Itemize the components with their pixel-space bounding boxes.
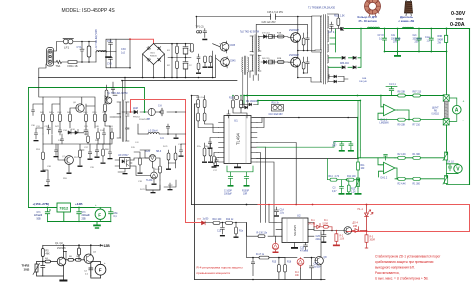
svg-text:DA1.2: DA1.2: [381, 177, 388, 180]
op-amp DA1.2: [378, 154, 397, 178]
svg-text:D83-004: D83-004: [340, 63, 350, 65]
extra labels cluster: [131, 147, 160, 183]
svg-text:MODEL: ISO-450PP 4S: MODEL: ISO-450PP 4S: [62, 8, 116, 14]
svg-text:TL494: TL494: [236, 132, 241, 145]
aux small transformer T4: [242, 56, 249, 75]
red protection frame top: [131, 100, 186, 223]
base drive row 1: [261, 35, 288, 39]
svg-text:FR11 1Б: FR11 1Б: [68, 64, 78, 68]
svg-text:25 - 30 витков: 25 - 30 витков: [359, 19, 378, 23]
green caps under U1: [227, 166, 253, 187]
svg-text:VR140: VR140: [308, 223, 316, 225]
resistor row: [42, 114, 45, 122]
svg-text:R2 4,4K: R2 4,4K: [398, 184, 407, 186]
R6 R7: [63, 252, 66, 259]
svg-text:R9 33K: R9 33K: [398, 124, 406, 126]
svg-text:F: F: [99, 268, 102, 273]
svg-text:1,2К: 1,2К: [351, 192, 356, 194]
svg-text:25V: 25V: [393, 42, 398, 44]
svg-text:R15: R15: [272, 262, 277, 264]
cap C470: [304, 243, 308, 250]
toroid core drawing: [365, 0, 381, 16]
svg-text:1,0К: 1,0К: [340, 239, 345, 241]
svg-text:3300мкФ: 3300мкФ: [391, 37, 401, 40]
cap C2: [89, 266, 93, 276]
left block density labels: [36, 126, 110, 180]
comparator U2: [282, 218, 308, 243]
svg-text:-: -: [463, 118, 464, 122]
green bus risers from rectifier: [244, 96, 258, 105]
output rectifier diode pair row 1: [329, 29, 362, 68]
output choke coil 1 on bus: [368, 27, 380, 28]
main transformer T1: [311, 15, 328, 85]
U2 pins: [276, 223, 314, 237]
svg-text:C10 10uF16V: C10 10uF16V: [269, 114, 284, 116]
svg-text:R-19 10к: R-19 10к: [196, 97, 204, 99]
mid caps/diodes: [47, 125, 62, 135]
svg-text:R-17 1к: R-17 1к: [256, 254, 265, 256]
second top wire: [256, 24, 307, 34]
svg-text:Стабилитроном ZD-1 устанавлива: Стабилитроном ZD-1 устанавливается порог: [375, 255, 441, 259]
black feedback line: [252, 117, 358, 119]
svg-text:0,47: 0,47: [332, 191, 337, 193]
svg-text:C26 1uF 25V: C26 1uF 25V: [262, 21, 276, 24]
base drive row 2: [261, 60, 288, 64]
cap C17: [215, 158, 219, 166]
7812 regulator circuit (green): [29, 207, 95, 209]
svg-text:2SC5027: 2SC5027: [289, 29, 300, 32]
svg-text:R12: R12: [351, 189, 356, 191]
svg-text:C1хх: C1хх: [425, 37, 431, 39]
top rail wire: [196, 16, 311, 18]
snubber R/C row2: [298, 51, 315, 78]
svg-text:10К: 10К: [295, 275, 300, 277]
fuse T6A: [56, 60, 62, 63]
transistor Q4: [221, 57, 230, 69]
svg-text:C-100P: C-100P: [224, 191, 232, 193]
transistor Q6: [65, 156, 74, 165]
svg-text:0-20A: 0-20A: [450, 22, 465, 28]
svg-text:Д1М: Д1М: [133, 108, 138, 110]
svg-text:R100P: R100P: [242, 191, 249, 193]
svg-text:CY2: CY2: [107, 41, 112, 43]
svg-text:TL431: TL431: [146, 180, 153, 182]
svg-text:R87 210: R87 210: [413, 92, 422, 94]
components above U1: [227, 95, 247, 118]
svg-text:ДО-4: ДО-4: [353, 223, 359, 225]
svg-text:SB-3: SB-3: [156, 151, 162, 153]
svg-text:ШУНТ: ШУНТ: [432, 108, 439, 110]
filter cap C2x: [417, 29, 421, 52]
connections to T3: [105, 96, 114, 145]
rectifier wire with D1M: [122, 108, 186, 116]
svg-text:540R: 540R: [438, 39, 444, 41]
U1 pin stubs: [219, 123, 258, 163]
svg-text:10R: 10R: [243, 194, 248, 196]
svg-text:R2B: R2B: [277, 58, 282, 60]
hanging parts: [251, 258, 254, 276]
svg-text:D7 C14: D7 C14: [262, 33, 270, 35]
resistors left of U1: [197, 96, 219, 168]
trimmer R-4 (red): [297, 258, 304, 268]
red protection feed line: [258, 204, 470, 206]
filter cap C1YO: [383, 29, 387, 52]
red frame bottom edge: [346, 231, 470, 233]
svg-text:R16 1k: R16 1k: [272, 102, 280, 104]
resistor R5: [42, 245, 44, 248]
black rail continuation to T3: [39, 78, 43, 98]
resistor R8: [398, 94, 406, 97]
svg-text:C25 4,7uF 25V: C25 4,7uF 25V: [267, 11, 283, 14]
red LED HL-1: [365, 205, 373, 231]
resistor R2b: [398, 177, 406, 180]
resistor R2a: [398, 156, 406, 159]
svg-text:2200/10V: 2200/10V: [139, 119, 149, 121]
resistor R87: [413, 94, 421, 97]
svg-text:L-5 35uH: L-5 35uH: [148, 131, 158, 133]
cap C25 on top rail: [271, 14, 276, 19]
trimmer TL431 group: [134, 146, 177, 185]
transistor Q5: [76, 104, 84, 112]
shunt terminal bottom: [443, 119, 449, 125]
secondary snubber R511 C27: [327, 14, 344, 31]
trimmer R40 (red highlighted): [272, 242, 278, 253]
svg-text:LF1: LF1: [64, 46, 70, 50]
optocoupler U3: [115, 158, 134, 169]
svg-text:300R: 300R: [370, 240, 376, 242]
bridge rectifier BR1: [143, 44, 165, 65]
svg-text:0,47: 0,47: [332, 146, 337, 148]
fusible resistor FR11: [68, 61, 77, 64]
transistor Q3: [220, 41, 229, 53]
L5 inductor row: [138, 124, 186, 139]
long vertical 2: [194, 104, 196, 280]
svg-text:R-20: R-20: [145, 151, 151, 153]
ammeter A: [449, 98, 461, 121]
ground: [62, 276, 64, 280]
fan F (green): [95, 208, 106, 222]
svg-text:C1YO: C1YO: [378, 35, 384, 37]
resistor R8 vertical: [78, 245, 80, 248]
svg-text:220мкФ: 220мкФ: [82, 214, 90, 217]
standby primary snubber: [105, 82, 117, 101]
bridge connection wires: [143, 44, 192, 78]
cap C1A: [274, 207, 279, 217]
primary bottom rail: [39, 77, 216, 79]
svg-text:U2: U2: [297, 214, 301, 218]
varistor RV1: [87, 42, 91, 63]
red resistor R-3: [365, 231, 368, 249]
svg-text:46К: 46К: [46, 253, 51, 256]
cap CY1: [80, 42, 84, 63]
thermistor THR2: [37, 262, 43, 265]
svg-text:R19: R19: [229, 98, 234, 100]
svg-text:R-4 регулировка порога защиты: R-4 регулировка порога защиты: [197, 266, 244, 270]
filter inductor LF2: [96, 51, 106, 62]
green return line ammeter: [378, 110, 444, 120]
svg-text:U3 CT817: U3 CT817: [118, 155, 129, 157]
output rectifier label fix: [337, 71, 359, 77]
sense chain black: [205, 222, 276, 237]
power transistor Q1: [288, 17, 301, 51]
svg-text:RS605: RS605: [150, 56, 157, 58]
svg-text:С2О: С2О: [316, 236, 321, 238]
svg-text:Кольцо от ДГС: Кольцо от ДГС: [358, 15, 378, 19]
ground output filter: [394, 52, 401, 57]
cap C3 0,47: [339, 180, 352, 195]
svg-text:R16: R16: [287, 262, 292, 264]
U1 ground: [237, 164, 239, 167]
output choke coil 2 on bus: [403, 27, 414, 28]
svg-text:2SC5027: 2SC5027: [289, 54, 300, 57]
svg-text:R1 300: R1 300: [413, 184, 421, 186]
black mid wire of protection: [314, 227, 346, 231]
red diode DO-4: [352, 227, 367, 233]
svg-text:3300мкФ: 3300мкФ: [413, 37, 423, 40]
green bottom rail of output filter: [385, 51, 447, 53]
svg-text:выходного напряжения БП.: выходного напряжения БП.: [375, 266, 415, 270]
svg-text:D9 1N4148: D9 1N4148: [246, 101, 258, 103]
resistors right column mid: [202, 143, 213, 163]
choke photo drawing: [405, 0, 413, 16]
lower wires: [43, 144, 110, 172]
hanging C and R on sense chain: [220, 223, 239, 238]
transistor Q2: [84, 254, 93, 263]
bottom rail: [195, 279, 326, 281]
svg-text:YP1 (2): YP1 (2): [196, 25, 204, 28]
svg-text:Тр: TRD-62L 90ТМ: Тр: TRD-62L 90ТМ: [107, 92, 127, 95]
svg-text:1u/50v: 1u/50v: [314, 267, 322, 269]
standby transformer T3: [114, 78, 129, 142]
extra small parts left block: [32, 104, 113, 186]
green standby frame left vertical: [28, 88, 30, 208]
svg-text:HL-1: HL-1: [358, 208, 364, 211]
dots on green buses: [243, 95, 245, 97]
transistor Q1: [57, 257, 66, 266]
svg-text:220мкФ: 220мкФ: [34, 214, 42, 217]
shunt to minus rail: [446, 125, 448, 150]
opto transistor D4: [344, 227, 352, 235]
svg-text:С10: С10: [300, 248, 305, 250]
green supply bus 1: [244, 95, 444, 97]
svg-text:A: A: [455, 108, 459, 114]
green op-amp supply rails down: [358, 101, 361, 158]
svg-text:R2 4,4K: R2 4,4K: [398, 154, 407, 156]
top +12V rail: [43, 244, 99, 246]
svg-text:0,001Ω: 0,001Ω: [432, 114, 440, 116]
resistor R1b: [413, 177, 421, 180]
cap C4: [447, 164, 452, 171]
red frame right edge: [469, 205, 471, 232]
small parts column under switch: [196, 44, 221, 78]
junction dots fan circuit: [63, 244, 65, 246]
green supply bus 2: [258, 100, 360, 102]
green output bus start: [344, 28, 470, 30]
red diode D: [202, 221, 206, 225]
black line U1 pin to voltage divider: [257, 158, 358, 160]
svg-text:LF2 TKD-62(7)40B: LF2 TKD-62(7)40B: [95, 29, 98, 50]
svg-text:50В: 50В: [37, 218, 42, 220]
secondary aux diodes: [329, 75, 348, 83]
svg-text:U вых. макс. = U стабилитрона: U вых. макс. = U стабилитрона + 5В.: [375, 277, 429, 281]
resistor R130: [258, 235, 265, 238]
trimmer voltmeter top: [443, 150, 448, 164]
green bottom rail + ground: [48, 212, 111, 229]
svg-text:Т1 TRD80R,CPL26UGE: Т1 TRD80R,CPL26UGE: [308, 7, 335, 10]
cap C8x: [100, 208, 113, 222]
svg-text:R7 210: R7 210: [413, 124, 421, 126]
trimmer R16: [272, 105, 284, 112]
svg-text:+12В: +12В: [75, 202, 83, 206]
green vertical from winding: [330, 29, 336, 52]
svg-text:R511 1,5K: R511 1,5K: [334, 16, 345, 18]
svg-text:+12В: +12В: [102, 244, 111, 248]
cap C1 0,1 on ammeter input: [386, 87, 397, 96]
svg-text:23В: 23В: [353, 226, 358, 228]
wire AC live top: [54, 42, 96, 52]
svg-text:+(150~27Б): +(150~27Б): [33, 202, 50, 206]
voltage adjust divider chain: [355, 101, 362, 195]
svg-text:срабатывания защиты при превыш: срабатывания защиты при превышении: [375, 260, 434, 264]
red zener D-1: [314, 223, 332, 229]
AC inlet connector J1: [47, 48, 54, 67]
red sense wire: [186, 222, 202, 224]
svg-text:Рассчитывается,: Рассчитывается,: [375, 271, 400, 275]
voltmeter V: [447, 164, 463, 174]
svg-text:max: max: [456, 17, 463, 21]
snubber R/C row1: [302, 33, 309, 51]
fan control circuit (black, bottom left): [33, 244, 106, 281]
svg-text:R1 30K: R1 30K: [413, 154, 421, 156]
power transistor Q2: [288, 51, 301, 78]
aux rectifier diodes D9 D10: [240, 103, 258, 109]
R14 line: [327, 158, 358, 181]
svg-text:1000pF: 1000pF: [224, 194, 232, 196]
svg-text:Тр2 TKD-62 90ТМ: Тр2 TKD-62 90ТМ: [240, 32, 259, 34]
svg-text:С1А: С1А: [280, 209, 285, 212]
voltmeter divider input lines: [358, 158, 444, 179]
svg-text:Дроссель: Дроссель: [400, 15, 413, 19]
svg-text:220u: 220u: [316, 239, 322, 241]
staircase from U1 right pins: [257, 118, 296, 237]
svg-text:R-130 13к: R-130 13к: [257, 233, 268, 235]
tiny gray labels in left block: [40, 102, 107, 158]
svg-text:C4 1,0: C4 1,0: [447, 161, 454, 163]
main filter cap bank: [168, 44, 191, 78]
cap C7x output: [77, 208, 81, 222]
svg-text:+: +: [463, 100, 465, 104]
dots U1 area: [246, 95, 248, 97]
black part of protection feed line: [192, 204, 259, 206]
resistor R1a: [413, 156, 421, 159]
svg-text:F: F: [98, 212, 101, 217]
svg-text:D8B: D8B: [362, 78, 367, 80]
driver stage resistor R40: [190, 44, 193, 53]
T2 bottom stubs to diodes: [243, 72, 248, 108]
red resistor R-2: [333, 231, 340, 247]
svg-text:C1 0,1: C1 0,1: [389, 84, 396, 86]
cap C220: [321, 231, 326, 243]
svg-text:R8 33K: R8 33K: [398, 92, 406, 94]
svg-text:470мкФ: 470мкФ: [300, 250, 308, 253]
resistor R9: [398, 118, 406, 121]
bottom protection circuit: [195, 223, 326, 280]
U2 supply riser: [269, 205, 276, 223]
svg-text:R11 100: R11 100: [347, 176, 356, 178]
row feed wire: [247, 223, 316, 258]
svg-text:25В: 25В: [82, 218, 87, 220]
svg-text:7812: 7812: [59, 206, 69, 211]
driver transformer T2: [250, 35, 261, 76]
svg-text:1u/50: 1u/50: [203, 219, 209, 221]
red feed wire to bridge: [130, 39, 154, 43]
svg-text:10К: 10К: [361, 168, 366, 170]
svg-text:1u2: 1u2: [121, 51, 126, 54]
op-amp DA1.1: [378, 96, 398, 120]
fan F black: [95, 264, 106, 275]
svg-text:R47a: R47a: [49, 112, 55, 114]
cap C1: [41, 262, 45, 277]
right output rail down: [469, 29, 471, 185]
filter cap C4x: [396, 29, 400, 52]
U2 ground: [291, 243, 298, 249]
opto cluster wiring: [118, 144, 186, 190]
svg-text:2SC945: 2SC945: [57, 247, 66, 250]
svg-text:20FQ40: 20FQ40: [359, 81, 368, 83]
svg-text:R3B: R3B: [438, 36, 443, 38]
grounds: [41, 171, 46, 172]
svg-text:25V: 25V: [415, 42, 420, 44]
trimmer voltmeter bottom: [443, 164, 470, 185]
shunt feed line: [446, 52, 448, 95]
svg-text:R1B: R1B: [277, 33, 282, 35]
svg-text:С14: С14: [314, 264, 319, 266]
svg-text:C945: C945: [230, 45, 236, 47]
left auxiliary control block: [41, 96, 115, 174]
svg-text:T6A: T6A: [56, 64, 61, 68]
green standby frame top: [29, 88, 145, 113]
cap C7x input: [45, 208, 50, 222]
svg-text:C945: C945: [230, 61, 236, 63]
driver return verticals: [250, 71, 258, 81]
svg-text:10Ω: 10Ω: [24, 268, 30, 272]
extra mid-strip parts: [134, 152, 160, 193]
svg-text:R14: R14: [329, 176, 334, 178]
svg-text:с каэма +5В: с каэма +5В: [399, 19, 415, 23]
wire AC neutral bottom: [54, 61, 96, 63]
svg-text:SG3525: SG3525: [293, 225, 297, 236]
long vertical from U1 area 1: [191, 96, 193, 205]
PWM controller U1 TL494: [224, 116, 251, 164]
regulator 7812: [57, 203, 71, 212]
green caps C2 0,47: [339, 142, 354, 152]
shunt terminal top: [443, 95, 449, 101]
wires upper: [43, 97, 95, 114]
svg-text:D8 C15: D8 C15: [262, 58, 270, 60]
R4 to Q1 base: [43, 261, 58, 263]
green feedback line from U1 pin: [257, 142, 351, 148]
startup supply YP1: [196, 17, 207, 41]
aux block extra parts right column: [34, 97, 114, 144]
bleeder resistor R3B: [445, 29, 448, 52]
common-mode choke LF1: [63, 39, 73, 44]
shunt resistor body: [444, 101, 448, 118]
svg-text:Q1, Q2: Q1, Q2: [55, 242, 63, 245]
filter cap C1xx: [429, 29, 433, 52]
svg-text:4,7К: 4,7К: [335, 176, 340, 178]
svg-text:U1: U1: [234, 119, 238, 123]
Y-cap block frame: [101, 39, 130, 68]
